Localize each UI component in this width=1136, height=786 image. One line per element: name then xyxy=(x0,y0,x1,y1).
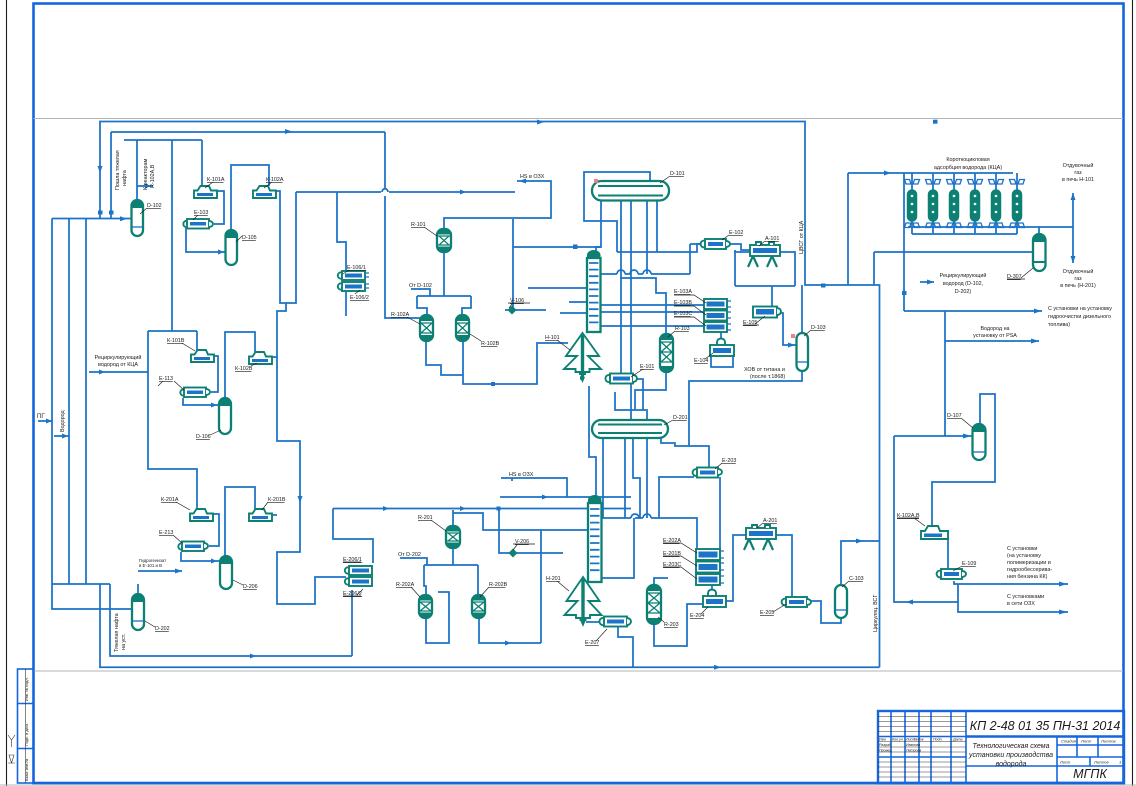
svg-text:Инв. № подл.: Инв. № подл. xyxy=(25,677,29,701)
wire: R-102 suction manifold xyxy=(417,296,471,315)
wire: manifold top tie xyxy=(52,218,132,220)
wire: exchanger to D-105 xyxy=(186,228,226,252)
wire: exchanger to D-206 xyxy=(181,552,219,561)
wire: E-206 block outlet to bottom header xyxy=(351,590,353,656)
EQUIPMENT xyxy=(132,173,1046,630)
label D-107 xyxy=(947,413,973,428)
wire: drum D-101 to E-102 xyxy=(584,172,735,252)
wire: R-101 bottom to manifold xyxy=(443,252,445,296)
right mini grid xyxy=(1057,737,1124,767)
TITLEBLOCK xyxy=(878,711,1124,783)
wire: ПГ feed arrow xyxy=(38,420,52,422)
exchanger E-202B xyxy=(696,562,724,573)
wire: left manifold riser 1 xyxy=(52,219,133,610)
wire: D-103 bottom xyxy=(689,371,802,446)
label H-101 xyxy=(545,335,570,350)
svg-text:Е-103: Е-103 xyxy=(194,210,208,216)
svg-text:полимеризации и: полимеризации и xyxy=(1007,560,1051,566)
compressor K-102A xyxy=(253,186,276,198)
svg-text:газ: газ xyxy=(1074,170,1082,176)
wire: E-109 outlet to KK unit xyxy=(954,581,1068,584)
wire: D-206 overhead to K-201B xyxy=(225,487,255,556)
svg-text:Подп.: Подп. xyxy=(933,738,943,742)
wire: stable naphtha arrow xyxy=(138,570,182,572)
svg-text:Отдувочный: Отдувочный xyxy=(1063,162,1094,169)
column C-101 xyxy=(587,250,601,332)
label D-201 xyxy=(664,415,688,425)
svg-text:водород от КЦА: водород от КЦА xyxy=(98,362,138,368)
wire: V-206 stub xyxy=(499,509,563,554)
compressor K-201A xyxy=(190,509,213,521)
wire: D-102 top to nafta line xyxy=(137,140,153,201)
wire: A-201 to E-205 xyxy=(775,535,792,597)
svg-text:Лист: Лист xyxy=(1059,760,1071,765)
wire: column 201 downcomers xyxy=(603,437,647,518)
label R-202A xyxy=(396,582,420,597)
svg-text:D-202): D-202) xyxy=(955,289,972,295)
label R-102A xyxy=(391,312,420,324)
wire: R-202 suction manifold xyxy=(424,565,478,595)
svg-text:водорода: водорода xyxy=(996,760,1027,768)
svg-text:HS в ОЗХ: HS в ОЗХ xyxy=(509,472,534,478)
exchanger E-205 xyxy=(782,597,811,607)
svg-text:КП 2-48 01 35 ПН-31 2014: КП 2-48 01 35 ПН-31 2014 xyxy=(970,719,1121,733)
label K-102AB xyxy=(897,513,925,526)
air cooler A-201 xyxy=(744,525,776,550)
wire: long risers to lower unit xyxy=(286,192,296,303)
wire: main battery-limit loop outer xyxy=(100,122,880,668)
description cell xyxy=(966,737,1057,784)
wire: R-201 suction xyxy=(452,510,454,526)
tiny row texts xyxy=(879,738,962,753)
exchanger E-103A xyxy=(704,299,731,309)
svg-text:Тяжелая нафта: Тяжелая нафта xyxy=(114,613,120,652)
wire: E-203 right drop to stack xyxy=(719,477,721,549)
wire: E-104 to D-103 xyxy=(777,313,796,345)
exchanger E-103C xyxy=(704,322,731,332)
svg-text:К реакторам: К реакторам xyxy=(143,159,149,190)
wire: D-107 feed xyxy=(894,435,973,437)
label E-101 xyxy=(631,364,654,377)
to KK unit text xyxy=(1007,546,1052,580)
svg-text:топлива): топлива) xyxy=(1048,322,1070,328)
exchanger E-202C xyxy=(696,574,724,585)
drum D-201 xyxy=(592,420,668,438)
svg-text:ХОВ от титана и: ХОВ от титана и xyxy=(744,367,785,373)
svg-text:МГПК: МГПК xyxy=(1073,767,1107,781)
label K-201B xyxy=(262,497,286,510)
label R-103 xyxy=(668,326,690,337)
label V-106 xyxy=(508,298,530,308)
to diesel unit text xyxy=(1048,306,1112,328)
wire: manifold cross arrow xyxy=(54,435,69,437)
sheet right black edge xyxy=(1132,0,1134,786)
svg-text:D-201: D-201 xyxy=(673,415,688,421)
wire: E-206 feed from header xyxy=(333,509,373,564)
wire: D-103 top stub xyxy=(801,285,803,333)
wire: E-103 stack left connections xyxy=(600,305,704,326)
exchanger E-204 xyxy=(703,590,726,608)
wire: D-105 overhead to K-102A xyxy=(231,165,269,230)
svg-text:R-203: R-203 xyxy=(664,622,679,628)
label K-201A xyxy=(161,497,190,510)
wire: E-102 riser xyxy=(690,244,702,274)
label A-101 xyxy=(759,236,779,246)
recycle H2 text xyxy=(940,272,987,295)
svg-text:С установки: С установки xyxy=(1007,546,1037,552)
wire: furnace to drum lines xyxy=(589,386,647,503)
exchanger E-207 xyxy=(599,617,631,627)
label D-206 xyxy=(233,580,258,590)
svg-text:(на установку: (на установку xyxy=(1007,553,1041,559)
svg-text:ЦВСГ от КЦА: ЦВСГ от КЦА xyxy=(799,220,805,254)
svg-text:на уст.: на уст. xyxy=(121,634,127,650)
wire: recycle H2 arrow xyxy=(920,281,934,283)
wire: E-106 feed xyxy=(337,192,346,272)
arrow xyxy=(46,419,52,424)
svg-text:Е-103А: Е-103А xyxy=(674,289,692,295)
wire: HS line to column xyxy=(513,219,601,310)
wire: long header y510 xyxy=(333,508,631,510)
compressor K-102B xyxy=(249,352,272,364)
wire: C-103 feed from right xyxy=(841,541,879,585)
label R-202B xyxy=(480,582,508,597)
svg-text:D-103: D-103 xyxy=(811,325,826,331)
wire: E-204 to A-201 xyxy=(726,535,746,601)
offgas text bottom xyxy=(1060,268,1096,289)
wire: feed to D-102 xyxy=(98,166,128,221)
svg-text:(после т.1868): (после т.1868) xyxy=(750,374,785,380)
wire: header y530 xyxy=(453,513,588,530)
svg-text:Кол.уч: Кол.уч xyxy=(892,738,903,742)
label R-203 xyxy=(658,617,679,628)
wire: R-103 top stub xyxy=(620,278,666,334)
compressor K-101B xyxy=(191,350,214,362)
svg-text:Лист: Лист xyxy=(1080,739,1092,744)
label D-101 xyxy=(660,171,685,183)
drum D-101 xyxy=(592,181,669,201)
rotated naphtha bottom xyxy=(114,613,127,652)
vessel C-103 xyxy=(835,585,847,618)
label E-207 xyxy=(585,629,607,646)
svg-text:установку от PSA: установку от PSA xyxy=(973,333,1017,339)
svg-text:D-102: D-102 xyxy=(147,203,162,209)
exchanger E-103B xyxy=(704,311,731,321)
node on top loop xyxy=(933,120,938,124)
svg-text:С установки на установку: С установки на установку xyxy=(1048,306,1112,312)
reactor R-102A xyxy=(420,315,433,341)
wire: branch to OZH net xyxy=(958,584,1068,612)
arrow on bottom header xyxy=(250,654,256,659)
PSA adsorber 4 xyxy=(968,173,983,234)
wire: PSA left downcomer xyxy=(904,173,1042,311)
exchanger E-102 xyxy=(701,239,730,249)
wire: R-101 overhead xyxy=(444,181,551,229)
reactor R-102B xyxy=(456,315,469,341)
offgas text top xyxy=(1062,162,1094,183)
small text hydrogenizate xyxy=(139,558,166,568)
exchanger row3 xyxy=(178,542,208,552)
label D-307 xyxy=(1007,268,1033,280)
svg-text:в Е-101 и В: в Е-101 и В xyxy=(139,563,162,568)
wire: stack bottom to E-204 dome xyxy=(711,585,713,590)
label E-203C xyxy=(663,562,697,579)
wire: drop to E-103 stack xyxy=(771,286,773,306)
left stamp table xyxy=(18,669,34,783)
gray bottom separator xyxy=(34,670,1124,672)
compressor K-201B xyxy=(249,509,272,521)
wire: D-202 top stub xyxy=(137,584,139,594)
wire: K-101B discharge to exchanger xyxy=(211,356,218,392)
label E-106/1 xyxy=(343,265,366,274)
label K-102A xyxy=(264,177,284,188)
recycle text left xyxy=(95,354,142,368)
PSA adsorber 3 xyxy=(947,173,962,234)
svg-text:адсорбция водорода (КЦА): адсорбция водорода (КЦА) xyxy=(934,165,1002,171)
label K-101A xyxy=(205,177,225,188)
wire: left manifold riser 3 xyxy=(85,219,87,585)
svg-text:К-102А: К-102А xyxy=(266,177,284,183)
wire: offgas riser xyxy=(1039,193,1073,263)
svg-text:R-103: R-103 xyxy=(675,326,690,332)
svg-text:Короткоцикловая: Короткоцикловая xyxy=(946,157,989,163)
svg-text:гидрообессерива-: гидрообессерива- xyxy=(1007,567,1052,573)
label K-102B xyxy=(235,363,257,372)
label E-204 xyxy=(690,607,708,619)
to OZH text xyxy=(1007,594,1044,607)
svg-text:К-201В: К-201В xyxy=(268,497,286,503)
left grid verticals xyxy=(891,711,966,783)
svg-text:Листов: Листов xyxy=(1093,760,1109,765)
svg-text:Провер.: Провер. xyxy=(879,749,892,753)
svg-text:Дата: Дата xyxy=(952,738,962,742)
left grid blue rows xyxy=(878,737,966,758)
svg-text:Н-201: Н-201 xyxy=(546,576,561,582)
vessel D-107 xyxy=(973,424,986,460)
svg-text:К-101А: К-101А xyxy=(207,177,225,183)
wire: E-207 outlet to bottom header xyxy=(618,626,633,667)
label E-106/2 xyxy=(350,290,369,301)
label D-202 xyxy=(145,621,170,632)
wire: K-102B discharge drop xyxy=(271,356,277,358)
label H-201 xyxy=(546,576,569,591)
svg-text:От D-102: От D-102 xyxy=(409,283,432,289)
vessel D-102 xyxy=(132,200,144,236)
vessel D-206 xyxy=(220,556,232,589)
svg-text:R-102А,В: R-102А,В xyxy=(150,164,156,188)
wire: crossing header y274 xyxy=(597,270,690,274)
label E-203 xyxy=(715,458,736,469)
wire: HS-201 line xyxy=(501,478,631,497)
label E-213 xyxy=(159,530,182,543)
svg-text:Е-104: Е-104 xyxy=(694,358,708,364)
svg-text:Е-205: Е-205 xyxy=(760,610,774,616)
wire: drop to D-107 xyxy=(944,311,946,436)
svg-text:R-201: R-201 xyxy=(418,515,433,521)
wire: K-102 to E-109 xyxy=(947,538,949,568)
H2 from PSA text xyxy=(973,326,1017,339)
exchanger E-105 xyxy=(753,307,781,318)
air cooler A-101 xyxy=(748,242,780,267)
svg-text:Е-102: Е-102 xyxy=(729,230,743,236)
title block outer xyxy=(878,711,1124,783)
wire: H2 from PSA arrow xyxy=(945,340,1039,342)
label K-101B xyxy=(167,338,195,351)
svg-text:R-102В: R-102В xyxy=(481,341,500,347)
furnace H-201 xyxy=(565,577,602,627)
rotated to reactors xyxy=(143,159,156,190)
exchanger E-203 xyxy=(693,468,722,478)
arrow to reactors xyxy=(145,184,151,189)
svg-text:D-101: D-101 xyxy=(670,171,685,177)
wire: inner bottom header xyxy=(110,584,352,656)
svg-text:Е-103С: Е-103С xyxy=(674,311,692,317)
svg-text:установки производства: установки производства xyxy=(968,751,1053,759)
svg-text:А-201: А-201 xyxy=(763,518,777,524)
label E-103C xyxy=(674,311,706,326)
exchanger E-109 xyxy=(937,569,966,579)
PIPES-RIGHT xyxy=(285,120,1076,615)
exchanger E-101 reboiler xyxy=(605,374,637,384)
column K-201 xyxy=(588,495,602,582)
wire: header y192 xyxy=(296,189,515,192)
label E-109 xyxy=(953,561,976,571)
label ХОВ xyxy=(744,367,785,380)
svg-text:Е-106/2: Е-106/2 xyxy=(350,295,369,301)
label HS top xyxy=(520,174,545,180)
svg-text:Е-203: Е-203 xyxy=(722,458,736,464)
svg-text:К-102В: К-102В xyxy=(235,366,253,372)
wire: column overhead riser x601 etc xyxy=(596,200,601,258)
label E-206/1 xyxy=(343,557,362,563)
PSA adsorber 2 xyxy=(926,173,941,234)
wire: PSA feed header xyxy=(848,173,1013,285)
wire: K-102A discharge long drop xyxy=(276,191,346,604)
svg-text:D-105: D-105 xyxy=(242,235,257,241)
wire: R-103 bottom xyxy=(635,372,666,410)
pink mark 1 xyxy=(594,179,598,183)
svg-text:R-202А: R-202А xyxy=(396,582,415,588)
PSA adsorber 5 xyxy=(989,173,1004,234)
wire: left manifold riser 2 xyxy=(68,219,70,585)
label E-113 xyxy=(158,376,184,390)
svg-text:Рециркулирующий: Рециркулирующий xyxy=(95,354,142,361)
label E-103 xyxy=(193,210,208,220)
svg-text:Е-103В: Е-103В xyxy=(674,300,692,306)
gray top separator xyxy=(34,118,1124,120)
wire: От D-202 connector xyxy=(400,558,427,565)
wire: D-107 loop to K-102 xyxy=(932,394,995,526)
svg-text:в сети ОЗХ: в сети ОЗХ xyxy=(1007,601,1035,607)
label E-206/2 xyxy=(343,589,363,597)
svg-text:R-101: R-101 xyxy=(411,222,426,228)
wire: R-201 bottom xyxy=(452,547,454,565)
PIPES-CENTER xyxy=(296,132,879,670)
label A-201 xyxy=(757,518,777,528)
label E-205 xyxy=(760,604,786,616)
wire: От D-102 connector xyxy=(411,289,430,296)
wire: inner top header xyxy=(111,132,385,219)
label V-206 xyxy=(513,539,535,550)
rotated naphtha top xyxy=(115,150,128,190)
wire: E-205 to C-103 xyxy=(807,601,841,623)
wire: central downcomers top xyxy=(621,200,647,420)
svg-text:Водород на: Водород на xyxy=(980,326,1009,332)
label E-103B xyxy=(674,300,706,315)
wire: third top header xyxy=(124,139,202,141)
svg-text:ния бензина КК): ния бензина КК) xyxy=(1007,574,1048,580)
left grid rows black xyxy=(878,717,966,778)
vessel D-103 xyxy=(797,333,809,371)
node xyxy=(573,245,578,250)
wire: header y497 xyxy=(500,496,567,498)
svg-text:ПГ: ПГ xyxy=(37,414,45,420)
vessel D-307 xyxy=(1033,234,1046,271)
wire: R-203 bottom to E-204 xyxy=(654,604,703,646)
label R-201 xyxy=(418,515,446,531)
label D-105 xyxy=(236,235,257,242)
wire: K-201A discharge to exchanger xyxy=(209,514,219,546)
PSA adsorber 1 xyxy=(905,173,920,234)
wire: V-106 stub xyxy=(505,309,546,311)
svg-text:№док: №док xyxy=(914,738,924,742)
PIPES-TOPLEFT xyxy=(38,122,880,668)
wire: tie y518 to stack xyxy=(601,514,697,549)
svg-text:газ: газ xyxy=(1074,276,1082,282)
wire: exchanger to D-106 xyxy=(183,398,219,405)
label R-102B xyxy=(470,334,500,347)
vessel D-202 xyxy=(132,594,144,630)
svg-text:Технологическая схема: Технологическая схема xyxy=(973,743,1050,750)
node on y131 header xyxy=(285,129,292,134)
wire: E-104 dome stub xyxy=(711,331,733,367)
exchanger row2 xyxy=(180,388,210,398)
label R-101 xyxy=(411,222,437,236)
wire: R-202 bottoms collect xyxy=(426,530,541,643)
svg-text:Взам. инв.№: Взам. инв.№ xyxy=(25,759,29,781)
svg-text:Е-113: Е-113 xyxy=(159,376,173,382)
svg-text:1: 1 xyxy=(1119,760,1121,765)
svg-text:Петрова: Петрова xyxy=(906,749,921,753)
valve V-206 xyxy=(509,549,518,558)
svg-text:Разраб.: Разраб. xyxy=(879,743,892,747)
svg-text:С установками: С установками xyxy=(1007,594,1044,600)
compressor K-102AB xyxy=(921,526,948,539)
vessel D-105 xyxy=(226,230,238,265)
svg-text:Циркуляц. ВСГ: Циркуляц. ВСГ xyxy=(873,595,879,632)
wire: E-203 outlet left xyxy=(659,477,694,518)
svg-text:водород (D-102,: водород (D-102, xyxy=(943,281,984,287)
wire: E-106 bottom stub xyxy=(345,291,347,316)
exchanger E-103 row1 xyxy=(183,219,213,229)
wire: E-101 piping xyxy=(621,374,643,410)
label E-105 xyxy=(743,316,765,326)
reactor R-101 xyxy=(437,229,451,252)
svg-text:С-103: С-103 xyxy=(849,576,864,582)
wire: D-106 overhead to K-102B xyxy=(225,332,255,398)
svg-text:Рециркулирующий: Рециркулирующий xyxy=(940,272,987,279)
reactor R-203 xyxy=(647,585,661,624)
wire: to diesel HDT unit xyxy=(903,310,905,312)
PSA adsorber 6 xyxy=(1010,173,1025,234)
reactor R-202B xyxy=(472,595,485,618)
svg-text:D-206: D-206 xyxy=(243,584,258,590)
pink mark 2 xyxy=(791,334,795,338)
exchanger E-106/1 xyxy=(338,271,369,280)
exchanger E-106/2 xyxy=(338,282,369,291)
svg-text:Е-207: Е-207 xyxy=(585,640,599,646)
wire: A-101 loop xyxy=(735,252,795,286)
